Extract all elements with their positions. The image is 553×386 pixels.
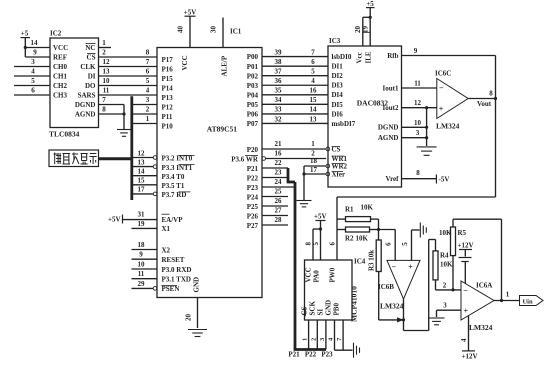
svg-text:1: 1 — [506, 291, 510, 299]
svg-text:39: 39 — [275, 48, 283, 56]
svg-text:LM324: LM324 — [469, 323, 493, 332]
svg-text:5: 5 — [312, 242, 320, 246]
svg-text:13: 13 — [310, 115, 318, 123]
wire P10 row to bus — [132, 115, 157, 124]
svg-text:P00: P00 — [247, 53, 259, 61]
svg-text:DI4: DI4 — [332, 91, 344, 99]
svg-text:CS: CS — [87, 54, 96, 62]
svg-text:AGND: AGND — [378, 134, 399, 142]
wire IC6A output to Uin — [494, 291, 520, 303]
svg-text:10: 10 — [414, 119, 422, 127]
op-amp IC6A (LM324) — [461, 281, 494, 332]
wire DAC WR2(18) to ground — [302, 157, 329, 200]
svg-text:AGND: AGND — [75, 111, 96, 119]
svg-text:TLC0834: TLC0834 — [49, 130, 80, 139]
svg-text:IC6C: IC6C — [435, 70, 451, 78]
svg-text:14: 14 — [310, 106, 318, 114]
IC2 pin 4 wire (CH1) — [14, 68, 50, 77]
svg-text:2: 2 — [102, 49, 106, 57]
wire IC6A pin3 to ground — [437, 302, 462, 318]
svg-text:+5V: +5V — [314, 213, 327, 221]
svg-text:9: 9 — [33, 49, 37, 57]
svg-text:R3 10k: R3 10k — [368, 250, 376, 271]
op-amp IC6C (LM324) — [435, 70, 468, 131]
svg-text:12: 12 — [138, 149, 146, 157]
wire R5 bottom to pin2 node — [452, 256, 454, 290]
svg-text:5: 5 — [146, 77, 150, 85]
net label P22 — [305, 351, 317, 359]
svg-text:VCC: VCC — [305, 267, 313, 282]
power +5 (IC2 VCC) — [21, 30, 31, 58]
svg-text:5: 5 — [401, 242, 409, 246]
digital pot IC4 MCP41010 — [301, 258, 366, 323]
svg-text:17: 17 — [310, 166, 318, 174]
svg-text:+5V: +5V — [108, 216, 121, 224]
wire IC6B pin5 to ground — [401, 230, 420, 260]
svg-text:P22: P22 — [305, 351, 317, 359]
svg-text:26: 26 — [275, 197, 283, 205]
wire P12 row to bus — [132, 96, 157, 105]
svg-text:PA0: PA0 — [313, 270, 321, 283]
svg-text:SI: SI — [317, 309, 325, 316]
ground (DAC analog) — [417, 147, 437, 155]
svg-text:NC: NC — [85, 44, 95, 52]
svg-text:+: + — [408, 263, 413, 272]
svg-text:P3.0 RXD: P3.0 RXD — [162, 266, 192, 274]
svg-text:Iout2: Iout2 — [383, 104, 399, 112]
svg-text:P22: P22 — [247, 174, 259, 182]
svg-text:23: 23 — [275, 169, 283, 177]
svg-text:R5: R5 — [458, 229, 467, 237]
svg-text:8: 8 — [102, 106, 106, 114]
svg-text:35: 35 — [275, 87, 283, 95]
svg-text:10K: 10K — [356, 235, 369, 243]
svg-text:2: 2 — [310, 338, 317, 341]
wire bus to IC1 pin 13 — [132, 158, 157, 168]
bus keyboard/display (thick vertical) — [130, 96, 133, 200]
svg-text:P16: P16 — [162, 65, 174, 73]
wire R4 to IC6A pin2 — [436, 280, 462, 292]
wire P11 row to bus — [132, 106, 157, 115]
svg-text:R2: R2 — [345, 235, 354, 243]
svg-text:29: 29 — [138, 280, 146, 288]
svg-text:11: 11 — [103, 87, 110, 95]
svg-text:lsbDI0: lsbDI0 — [332, 53, 352, 61]
wire P22(23) to bus — [262, 169, 288, 178]
svg-text:19: 19 — [138, 220, 146, 228]
wire IC6B output down — [397, 299, 405, 331]
svg-text:IC3: IC3 — [329, 37, 341, 45]
svg-text:24: 24 — [275, 178, 283, 186]
svg-text:6: 6 — [31, 87, 35, 95]
svg-text:R1: R1 — [345, 206, 354, 214]
svg-text:VCC: VCC — [181, 55, 189, 70]
svg-text:1: 1 — [311, 140, 315, 148]
svg-text:3: 3 — [31, 58, 35, 66]
svg-text:RESET: RESET — [162, 256, 185, 264]
ground (WR2/Xfer) — [297, 201, 312, 207]
svg-text:4: 4 — [31, 68, 35, 76]
svg-text:6: 6 — [328, 242, 336, 246]
wire PW0 pin 6 (to feedback node) — [328, 242, 336, 246]
svg-text:37: 37 — [275, 68, 283, 76]
wire P20(21) to DAC CS(1) — [262, 140, 330, 151]
svg-text:3: 3 — [443, 302, 447, 310]
svg-text:P3.5 T1: P3.5 T1 — [162, 182, 185, 190]
svg-text:5: 5 — [311, 68, 315, 76]
svg-text:12: 12 — [103, 58, 111, 66]
svg-text:ALE/P: ALE/P — [221, 55, 229, 76]
wire output to R3 bottom — [379, 272, 404, 320]
IC1 pin 9 stub (RESET) — [132, 251, 158, 260]
wire IC2 AGND(8) joins — [99, 106, 125, 115]
svg-text:10: 10 — [138, 261, 146, 269]
svg-text:P23: P23 — [321, 351, 333, 359]
IC2 pin 5 wire (CH2) — [14, 77, 50, 86]
svg-text:14: 14 — [31, 39, 39, 47]
svg-text:7: 7 — [311, 48, 315, 56]
svg-text:DGND: DGND — [378, 124, 399, 132]
MCU IC1 AT89C51 — [157, 28, 262, 298]
svg-text:−: − — [463, 286, 468, 295]
wire output to R4 top — [404, 240, 436, 331]
svg-text:2: 2 — [443, 281, 447, 289]
svg-text:15: 15 — [310, 96, 318, 104]
IC1 pin 25 stub (P24) — [262, 188, 288, 197]
svg-text:IC6B: IC6B — [378, 283, 394, 291]
svg-text:R4: R4 — [440, 251, 449, 259]
power +12V (IC6A V-) — [458, 242, 474, 284]
svg-text:−: − — [439, 83, 444, 92]
svg-text:P3.2 INT0: P3.2 INT0 — [162, 155, 193, 163]
svg-text:P11: P11 — [162, 113, 173, 121]
wire keyboard box to bus (thick) — [99, 157, 132, 160]
wire P03(36) to DAC DI3(4) — [262, 77, 328, 85]
svg-text:P13: P13 — [162, 94, 174, 102]
IC1 pin 28 stub (P27) — [262, 216, 288, 225]
svg-text:7: 7 — [102, 96, 106, 104]
wire DAC Xfer(17) joins — [304, 166, 330, 176]
IC4 pins 1,2,3 to P2 bus — [302, 320, 326, 350]
svg-text:33: 33 — [275, 106, 283, 114]
wire P00(39) to DAC DI0(7) — [262, 48, 328, 56]
svg-text:+12V: +12V — [458, 242, 474, 250]
svg-text:IC1: IC1 — [230, 28, 242, 36]
wire R1/R2 junction to R3 and pin6 — [377, 219, 395, 260]
svg-text:P3.3 INT1: P3.3 INT1 — [162, 164, 193, 172]
svg-text:Iout1: Iout1 — [383, 84, 399, 92]
wire IC2 DO(10) to IC1 P14(5) — [99, 77, 158, 86]
svg-text:8: 8 — [146, 49, 150, 57]
svg-text:P17: P17 — [162, 56, 174, 64]
wire P21(22) to bus — [262, 159, 288, 168]
svg-text:8: 8 — [489, 90, 493, 98]
IC1 pin 19 stub (X1) — [132, 220, 158, 228]
svg-text:GND: GND — [325, 300, 333, 316]
resistor R4 10K — [433, 251, 453, 280]
svg-text:LM324: LM324 — [436, 122, 460, 131]
svg-text:CS: CS — [301, 306, 309, 315]
wire AGND(3) to ground — [402, 108, 429, 146]
bus P21-P23 to MCP41010 (thick) — [287, 168, 326, 350]
svg-text:DI5: DI5 — [332, 101, 344, 109]
svg-text:4: 4 — [146, 87, 150, 95]
wire Rfb(9) feedback — [402, 47, 496, 56]
svg-text:28: 28 — [275, 216, 283, 224]
svg-text:P03: P03 — [247, 82, 259, 90]
svg-text:P07: P07 — [247, 120, 259, 128]
svg-text:Uin: Uin — [522, 298, 533, 305]
svg-text:+12V: +12V — [462, 353, 478, 361]
ground (IC6A pin3) — [429, 318, 445, 325]
svg-text:8: 8 — [416, 169, 420, 177]
svg-text:msbDI7: msbDI7 — [332, 120, 356, 128]
svg-text:18: 18 — [138, 241, 146, 249]
wire P04(35) to DAC DI4(16) — [262, 87, 328, 95]
IC4 pins 4,7 to ground — [328, 320, 353, 350]
IC2 pin 9 wire — [25, 49, 50, 58]
svg-text:21: 21 — [275, 140, 283, 148]
svg-text:CH3: CH3 — [53, 92, 68, 100]
wire P07(32) to DAC DI7(13) — [262, 115, 328, 123]
svg-text:DI2: DI2 — [332, 72, 344, 80]
svg-text:−: − — [392, 262, 397, 271]
ground (IC6B pin5, rotated) — [420, 223, 426, 238]
svg-text:13: 13 — [138, 158, 146, 166]
svg-text:VCC: VCC — [53, 44, 68, 52]
svg-text:4: 4 — [311, 77, 315, 85]
svg-text:9: 9 — [139, 251, 143, 259]
svg-text:GND: GND — [193, 277, 201, 293]
ground (IC4, rotated) — [354, 343, 360, 358]
svg-text:40: 40 — [176, 26, 184, 34]
svg-text:6: 6 — [311, 58, 315, 66]
op-amp IC6B (LM324) — [378, 260, 420, 310]
ADC IC2 TLC0834 — [49, 30, 99, 139]
svg-text:17: 17 — [138, 186, 146, 194]
svg-text:SARS: SARS — [78, 92, 96, 100]
svg-text:P14: P14 — [162, 84, 174, 92]
svg-text:SCK: SCK — [309, 301, 317, 316]
svg-text:Rfb: Rfb — [387, 52, 398, 60]
svg-text:16: 16 — [275, 150, 283, 158]
IC1 pin 26 stub (P25) — [262, 197, 288, 206]
svg-text:P20: P20 — [247, 146, 259, 154]
power +5V (IC4 pins 8,5) — [304, 213, 326, 261]
svg-text:ILE: ILE — [365, 51, 373, 63]
svg-text:P26: P26 — [247, 212, 259, 220]
svg-text:DO: DO — [85, 82, 96, 90]
svg-text:CH0: CH0 — [53, 63, 68, 71]
wire P06(33) to DAC DI6(14) — [262, 106, 328, 114]
svg-text:CH1: CH1 — [53, 73, 68, 81]
svg-text:P04: P04 — [247, 91, 259, 99]
svg-text:X1: X1 — [162, 225, 171, 233]
svg-text:11: 11 — [138, 270, 145, 278]
svg-text:P3.1 TXD: P3.1 TXD — [162, 276, 191, 284]
IC1 pin 27 stub (P26) — [262, 207, 288, 216]
svg-text:6: 6 — [146, 68, 150, 76]
IC2 pin 1 stub (NC) — [99, 39, 112, 48]
resistor R2 10K — [337, 227, 379, 243]
svg-text:DGND: DGND — [75, 101, 96, 109]
svg-text:30: 30 — [209, 26, 217, 34]
svg-text:18: 18 — [310, 157, 318, 165]
power +12V (IC6A pin4) — [460, 316, 478, 361]
IC2 pin 6 wire (CH3) — [14, 87, 50, 96]
svg-text:P01: P01 — [247, 63, 259, 71]
svg-text:CLK: CLK — [80, 63, 96, 71]
IC1 pin 30 stub (ALE) — [209, 18, 223, 48]
svg-text:AT89C51: AT89C51 — [207, 125, 238, 134]
svg-text:P24: P24 — [247, 193, 259, 201]
svg-text:DI1: DI1 — [332, 63, 344, 71]
svg-text:DI3: DI3 — [332, 82, 344, 90]
power +5V (IC1 pin 31 EA) — [108, 211, 157, 224]
wire P01(38) to DAC DI1(6) — [262, 58, 328, 66]
DAC IC3 DAC0832 — [328, 37, 402, 187]
resistor R3 10k — [368, 240, 382, 272]
IC1 pin 20 GND wire — [185, 298, 198, 329]
svg-text:P23: P23 — [247, 184, 259, 192]
svg-text:16: 16 — [310, 87, 318, 95]
svg-text:3: 3 — [146, 96, 150, 104]
svg-text:4: 4 — [460, 338, 468, 342]
svg-text:13: 13 — [103, 68, 111, 76]
svg-text:P3.4 T0: P3.4 T0 — [162, 173, 185, 181]
svg-text:+5: +5 — [366, 0, 374, 8]
svg-text:IC4: IC4 — [354, 258, 366, 266]
IC1 pin 29 stub (PSEN) — [132, 280, 157, 290]
svg-text:P05: P05 — [247, 101, 259, 109]
svg-text:20: 20 — [185, 314, 193, 322]
wire P02(37) to DAC DI2(5) — [262, 68, 328, 76]
wire Iout1(11) to op-amp — [402, 80, 437, 89]
svg-text:+5V: +5V — [184, 9, 197, 17]
svg-text:MCP41010: MCP41010 — [350, 286, 359, 322]
svg-text:36: 36 — [275, 77, 283, 85]
svg-text:Vcc: Vcc — [356, 52, 364, 63]
svg-text:P02: P02 — [247, 72, 259, 80]
wire IC2 CS(2) to IC1 P17(8) — [99, 49, 158, 58]
svg-text:2: 2 — [146, 106, 150, 114]
svg-text:REF: REF — [53, 54, 67, 62]
svg-text:X2: X2 — [162, 246, 171, 254]
net label P23 — [321, 351, 333, 359]
svg-text:1: 1 — [102, 39, 106, 47]
wire IC2 CLK(12) to IC1 P16(7) — [99, 58, 158, 67]
svg-text:15: 15 — [138, 177, 146, 185]
net label P21 — [288, 351, 300, 359]
svg-text:22: 22 — [275, 159, 283, 167]
wire P23(24) to bus — [262, 178, 295, 187]
svg-text:+: + — [439, 105, 444, 114]
svg-text:PW0: PW0 — [329, 267, 337, 282]
wire P3.6 WR(16) to DAC WR1(2) — [262, 150, 326, 161]
svg-text:32: 32 — [275, 115, 283, 123]
svg-text:DI6: DI6 — [332, 110, 344, 118]
wire bus to IC1 pin 17 — [132, 186, 157, 196]
svg-text:1: 1 — [302, 338, 309, 341]
svg-text:P21: P21 — [288, 351, 300, 359]
wire IC6C output / node Vout — [468, 90, 497, 108]
power +5 (IC3 pins 20,19) — [354, 0, 375, 46]
svg-text:10: 10 — [103, 77, 111, 85]
svg-text:P15: P15 — [162, 75, 174, 83]
resistor R5 10K — [439, 227, 467, 256]
svg-text:+: + — [464, 306, 469, 315]
svg-text:9: 9 — [414, 47, 418, 55]
svg-text:7: 7 — [146, 58, 150, 66]
power +5V (IC1 pin 40) — [176, 9, 196, 48]
svg-text:34: 34 — [275, 96, 283, 104]
keyboard & display box — [49, 150, 99, 167]
svg-text:P3.7 RD: P3.7 RD — [162, 191, 187, 199]
svg-text:38: 38 — [275, 58, 283, 66]
resistor R1 10K — [337, 204, 379, 222]
svg-text:Vref: Vref — [386, 175, 400, 183]
wire IC2 SARS(11) to IC1 P13(4) — [99, 87, 158, 96]
svg-text:IC2: IC2 — [50, 30, 62, 38]
svg-text:14: 14 — [138, 168, 146, 176]
wire feedback Vout to R1/R2/PW0 node — [337, 56, 496, 261]
svg-text:IC6A: IC6A — [476, 282, 492, 290]
svg-text:1: 1 — [146, 115, 150, 123]
ground (IC1 pin 20) — [188, 330, 207, 337]
wire DGND(10) to ground — [402, 119, 429, 129]
IC2 pin 14 wire — [25, 39, 50, 48]
svg-text:+5: +5 — [21, 30, 29, 38]
IC2 pin 3 wire (CH0) — [14, 58, 50, 67]
svg-text:Vout: Vout — [477, 100, 492, 108]
svg-text:P12: P12 — [162, 103, 174, 111]
ground (IC2) — [117, 130, 131, 137]
svg-text:LM324: LM324 — [380, 302, 404, 311]
svg-text:PB0: PB0 — [333, 303, 341, 316]
IC1 pin 11 stub (TXD) — [132, 270, 158, 279]
svg-text:5: 5 — [31, 77, 35, 85]
svg-text:10K: 10K — [361, 204, 374, 212]
net flag Uin — [520, 296, 544, 306]
svg-text:-5V: -5V — [439, 176, 450, 184]
wire bus to IC1 pin 15 — [132, 177, 157, 185]
IC1 pin 18 stub (X2) — [132, 241, 158, 250]
wire IC2 DI(13) to IC1 P15(6) — [99, 68, 158, 77]
wire Iout2(12) to op-amp + — [402, 99, 437, 109]
svg-text:31: 31 — [138, 211, 146, 219]
svg-text:P3.6 WR: P3.6 WR — [231, 155, 259, 163]
svg-text:11: 11 — [414, 80, 421, 88]
svg-text:P25: P25 — [247, 203, 259, 211]
svg-text:DI: DI — [88, 73, 96, 81]
svg-text:6: 6 — [385, 242, 393, 246]
svg-text:12: 12 — [414, 99, 422, 107]
svg-text:PSEN: PSEN — [162, 285, 180, 293]
wire R5 top feedback to output node — [453, 219, 502, 300]
IC1 pin 10 stub (RXD) — [132, 261, 158, 270]
svg-text:EA/VP: EA/VP — [162, 216, 184, 224]
wire IC2 DGND(7) to ground — [99, 96, 126, 129]
svg-text:P27: P27 — [247, 222, 259, 230]
wire bus to IC1 pin 12 — [132, 149, 157, 159]
svg-text:P21: P21 — [247, 165, 259, 173]
svg-text:P06: P06 — [247, 111, 259, 119]
svg-text:25: 25 — [275, 188, 283, 196]
svg-text:CH2: CH2 — [53, 82, 68, 90]
svg-text:10K: 10K — [440, 260, 453, 268]
svg-text:27: 27 — [275, 207, 283, 215]
wire P05(34) to DAC DI5(15) — [262, 96, 328, 104]
